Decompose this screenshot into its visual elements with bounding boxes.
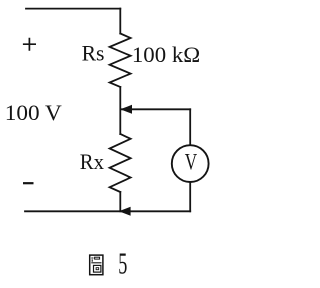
- resistor Rs: [110, 34, 131, 88]
- arrow: bottom probe pointing left: [119, 207, 131, 216]
- wire: voltmeter branch down to meter: [189, 109, 191, 145]
- arrow: top probe at node A pointing left: [120, 105, 132, 114]
- svg-text:V: V: [185, 149, 197, 175]
- resistor Rx: [110, 134, 131, 192]
- svg-text:Rx: Rx: [80, 149, 104, 174]
- wire: vertical from top corner down to Rs: [119, 9, 121, 34]
- source − terminal: [23, 182, 34, 184]
- wire: node A horizontal to voltmeter branch: [121, 108, 190, 110]
- wire: top horizontal from + terminal to Rs: [26, 8, 120, 10]
- wire: from Rx to bottom node: [119, 192, 121, 211]
- caption character 圖 (drawn): [90, 255, 103, 275]
- voltmeter V1 circle: [172, 145, 209, 182]
- wire: between Rs and Rx through node A: [119, 87, 121, 134]
- wire: bottom horizontal from − terminal to voltmeter branch: [25, 210, 190, 212]
- wire: voltmeter bottom lead: [189, 182, 191, 211]
- svg-text:100 V: 100 V: [5, 100, 62, 125]
- svg-text:100 kΩ: 100 kΩ: [132, 42, 200, 67]
- svg-text:Rs: Rs: [82, 41, 105, 66]
- source + terminal: [23, 38, 36, 51]
- svg-text:5: 5: [118, 247, 127, 281]
